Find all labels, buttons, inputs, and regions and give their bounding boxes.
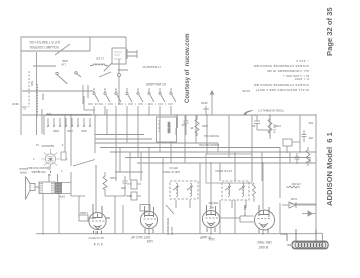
svg-text:BR: BR (287, 243, 291, 247)
svg-text:IN ALL RESISTORS ARE 1 WATT: IN ALL RESISTORS ARE 1 WATT (255, 88, 309, 92)
svg-text:PHONO MOTOR: PHONO MOTOR (199, 143, 219, 147)
svg-text:ANGLE: ANGLE (19, 167, 28, 171)
svg-text:UNLESS OTHERWISE SPECIFIED: UNLESS OTHERWISE SPECIFIED (253, 83, 309, 87)
svg-text:SEC 1000: SEC 1000 (168, 121, 171, 133)
svg-text:5126: 5126 (242, 89, 250, 93)
svg-text:3405: 3405 (81, 129, 87, 133)
svg-text:AF OUTPUT: AF OUTPUT (88, 236, 104, 240)
svg-text:L10: L10 (181, 123, 186, 127)
svg-text:1 MEG: 1 MEG (80, 211, 88, 215)
svg-text:AVC: AVC (209, 206, 214, 210)
svg-text:1R5 7562: 1R5 7562 (257, 240, 272, 244)
svg-text:3 V 4: 3 V 4 (93, 242, 103, 247)
svg-text:VOLUME CONTROL: VOLUME CONTROL (29, 45, 59, 49)
svg-text:S1 WILLIAMS: S1 WILLIAMS (146, 82, 166, 86)
svg-text:455 KC: 455 KC (169, 166, 178, 170)
svg-text:PHONO: PHONO (117, 68, 128, 72)
svg-text:READINGS: READINGS (41, 144, 54, 147)
svg-text:UNLESS OTHERWISE SPECIFIED: UNLESS OTHERWISE SPECIFIED (253, 64, 309, 68)
svg-text:TONE NORMALCY: TONE NORMALCY (258, 109, 284, 113)
svg-text:100K: 100K (202, 124, 208, 128)
svg-text:470M: 470M (275, 124, 282, 128)
svg-text:2ND IF TRAN: 2ND IF TRAN (163, 170, 180, 174)
svg-text:340K: 340K (67, 129, 73, 133)
svg-text:VOLTAGES: VOLTAGES (31, 170, 46, 174)
svg-text:Page 32 of 35: Page 32 of 35 (325, 7, 334, 56)
svg-text:50K: 50K (308, 121, 313, 125)
svg-text:CONDENSER: CONDENSER (166, 218, 170, 235)
svg-text:.005: .005 (120, 186, 126, 190)
svg-text:250: 250 (308, 136, 313, 140)
svg-text:L7 MAGNETIC: L7 MAGNETIC (142, 65, 161, 69)
svg-text:1N34: 1N34 (290, 197, 297, 201)
svg-text:ADDISON Model 6 1: ADDISON Model 6 1 (325, 131, 334, 206)
svg-text:D.P-S.T SWITCH ON: D.P-S.T SWITCH ON (29, 40, 60, 44)
svg-text:IF AMP: IF AMP (199, 235, 211, 239)
svg-text:RADIO SOCKET: RADIO SOCKET (27, 166, 48, 170)
svg-text:-- 419 C: -- 419 C (295, 59, 309, 63)
svg-text:250,000: 250,000 (208, 201, 218, 205)
svg-text:VOL: VOL (30, 80, 34, 86)
svg-text:1 W: 1 W (61, 63, 66, 67)
svg-text:SPKR: SPKR (20, 171, 27, 175)
svg-text:GND: GND (12, 102, 20, 106)
svg-text:SPK: SPK (59, 195, 65, 199)
svg-text:GND: GND (201, 101, 209, 105)
svg-text:PLATE: PLATE (170, 226, 174, 235)
svg-text:B BAT: B BAT (258, 245, 268, 249)
svg-text:100K: 100K (62, 59, 68, 63)
svg-text:M = 1,000,000 +: M = 1,000,000 + (283, 74, 309, 78)
svg-text:1ST IF 455KC: 1ST IF 455KC (215, 169, 232, 173)
svg-text:Courtesy of nucow.com: Courtesy of nucow.com (185, 34, 191, 103)
svg-text:100K: 100K (110, 176, 116, 180)
svg-text:.05: .05 (190, 126, 194, 130)
svg-text:470,000: 470,000 (291, 182, 301, 186)
svg-text:500K: 500K (41, 93, 45, 100)
svg-text:MEG: MEG (126, 194, 132, 198)
svg-text:2.2: 2.2 (127, 182, 131, 186)
svg-text:ALL CONDENSERS IN MF: ALL CONDENSERS IN MF (267, 69, 309, 73)
svg-text:500,000 VOL: 500,000 VOL (203, 134, 219, 138)
svg-text:L3 100: L3 100 (96, 57, 104, 61)
svg-text:100: 100 (46, 112, 51, 116)
svg-text:250K: 250K (53, 129, 59, 133)
svg-text:.02: .02 (252, 124, 256, 128)
svg-text:DET AVC AF: DET AVC AF (131, 235, 150, 239)
